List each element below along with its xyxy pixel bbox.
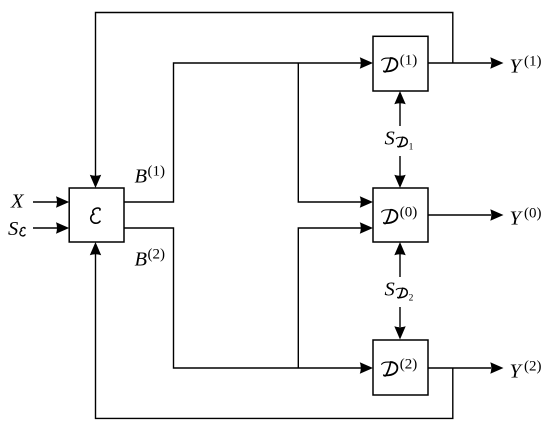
- wire B2: encoder to D2: [124, 228, 373, 374]
- decoder block D1: [373, 36, 428, 91]
- wire S_D1 arrow up into D1: [394, 91, 405, 126]
- wire S_D2 arrow down into D2: [394, 307, 405, 340]
- wire B1 branch to D0: [298, 63, 373, 208]
- node label S_D2: [385, 278, 414, 303]
- decoder label D^(1): [382, 53, 418, 72]
- wire X input: [33, 196, 69, 207]
- wire B2 branch to D0: [298, 222, 373, 368]
- node label Y^(0): [510, 206, 542, 230]
- encoder label calligraphic E: [91, 208, 100, 223]
- node label S_D1: [385, 127, 414, 152]
- svg-text:B: B: [135, 248, 148, 270]
- svg-text:(1): (1): [524, 54, 542, 70]
- svg-text:(1): (1): [400, 53, 418, 69]
- node label X: [10, 191, 25, 213]
- svg-text:(2): (2): [524, 359, 542, 375]
- node label Y^(1): [510, 54, 542, 78]
- svg-text:2: 2: [409, 294, 414, 304]
- node label B^(2): [135, 246, 166, 270]
- wire feedback top: D1 output junction to encoder top: [90, 13, 453, 189]
- wire B1: encoder to D1: [124, 57, 373, 202]
- svg-text:S: S: [8, 218, 18, 240]
- decoder label D^(0): [382, 204, 418, 223]
- svg-text:1: 1: [409, 143, 414, 153]
- svg-text:(2): (2): [400, 357, 418, 373]
- svg-text:(0): (0): [524, 206, 542, 222]
- svg-text:(1): (1): [148, 164, 166, 180]
- node label Y^(2): [510, 359, 542, 383]
- wire S_E input: [33, 222, 69, 233]
- decoder block D2: [373, 340, 428, 395]
- wire D2 output to Y2: [428, 362, 504, 373]
- svg-text:(2): (2): [148, 246, 166, 262]
- decoder block D0: [373, 188, 428, 242]
- encoder block E: [69, 188, 124, 242]
- wire D0 output to Y0: [428, 209, 504, 220]
- wire S_D2 arrow up into D0: [394, 242, 405, 277]
- svg-text:X: X: [10, 191, 25, 213]
- node label B^(1): [135, 164, 166, 188]
- wire S_D1 arrow down into D0: [394, 156, 405, 188]
- svg-text:B: B: [135, 166, 148, 188]
- node label S_E: [8, 218, 25, 240]
- svg-text:S: S: [385, 127, 395, 149]
- wire D1 output to Y1: [428, 57, 504, 68]
- decoder label D^(2): [382, 357, 418, 376]
- svg-text:S: S: [385, 278, 395, 300]
- wire feedback bottom: D2 output junction to encoder bottom: [90, 242, 453, 418]
- svg-text:(0): (0): [400, 204, 418, 220]
